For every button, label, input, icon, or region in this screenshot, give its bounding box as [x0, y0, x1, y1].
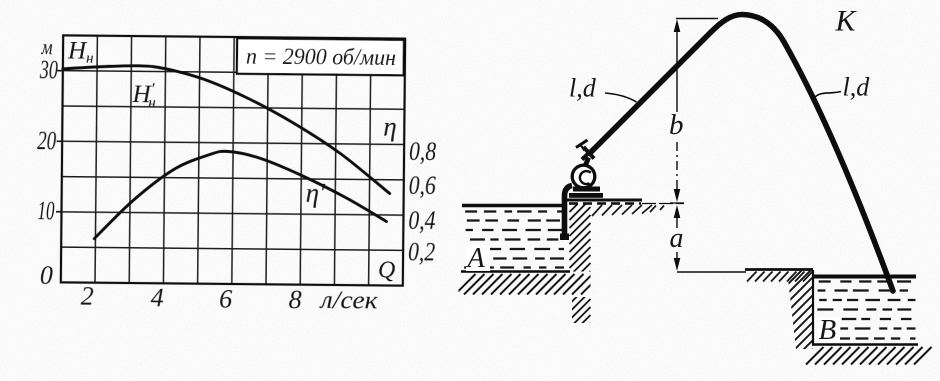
- arrow down at ground end of b: [674, 189, 681, 202]
- chart frame: [61, 35, 405, 285]
- hatch under reservoir B: [806, 347, 932, 365]
- arrow up at K level: [674, 19, 681, 32]
- reservoir A water surface: [462, 204, 566, 208]
- bank column right of A, lower: [570, 283, 591, 344]
- upper ground thin line to dimension: [642, 203, 684, 205]
- bank column right of A, upper: [570, 191, 591, 292]
- svg-text:0,2: 0,2: [408, 237, 435, 266]
- label B: [817, 314, 840, 346]
- lower ground surface: [745, 268, 813, 271]
- reservoir B water body: [817, 282, 915, 339]
- curve eta (efficiency): [94, 150, 387, 241]
- svg-text:0,6: 0,6: [409, 171, 436, 200]
- tick at ground level: [670, 202, 684, 204]
- discharge pipe over the hill: [592, 15, 894, 292]
- lower level reference line: [677, 271, 746, 273]
- svg-text:В: В: [819, 314, 837, 346]
- leader right: [814, 92, 842, 100]
- pump neck to valve: [585, 158, 589, 167]
- svg-text:η′: η′: [306, 178, 327, 208]
- svg-text:n = 2900 об/мин: n = 2900 об/мин: [246, 44, 396, 70]
- svg-text:20: 20: [37, 126, 56, 155]
- svg-text:2: 2: [81, 282, 94, 311]
- svg-text:l,d: l,d: [843, 73, 871, 102]
- svg-text:Q: Q: [378, 257, 396, 283]
- lower ground hatch ticks: [747, 272, 813, 282]
- svg-text:10: 10: [37, 196, 54, 225]
- svg-text:0,4: 0,4: [408, 206, 435, 235]
- svg-text:4: 4: [151, 283, 164, 312]
- reservoir B water surface: [814, 275, 916, 279]
- arrow up start of a: [674, 205, 681, 218]
- svg-text:η: η: [383, 111, 397, 141]
- svg-text:л/сек: л/сек: [318, 287, 378, 315]
- dimension top tick at K level: [676, 18, 718, 20]
- B left wall line: [812, 270, 814, 345]
- reservoir B bottom: [812, 343, 918, 346]
- svg-text:8: 8: [289, 285, 302, 314]
- svg-text:Н′н: Н′н: [131, 79, 156, 111]
- svg-text:b: b: [669, 109, 684, 141]
- upper ground dashes below surface: [569, 202, 641, 205]
- dimension vertical line b: [676, 28, 678, 112]
- svg-text:0: 0: [40, 261, 53, 290]
- suction pipe: [565, 186, 573, 240]
- reservoir A bottom: [461, 270, 570, 272]
- label A: [466, 243, 491, 274]
- svg-text:К: К: [835, 5, 858, 38]
- svg-text:l,d: l,d: [569, 74, 597, 103]
- svg-text:30: 30: [39, 55, 58, 84]
- grid: [61, 35, 405, 285]
- pump volute spiral: [580, 171, 591, 184]
- suction pipe foot: [560, 234, 569, 241]
- valve body X: [582, 147, 595, 160]
- svg-text:6: 6: [219, 284, 232, 313]
- hatch strip under upper ground: [592, 205, 664, 216]
- bank wedge left of B: [784, 259, 813, 381]
- svg-text:0,8: 0,8: [409, 137, 436, 166]
- upper ground surface thick: [565, 199, 642, 202]
- pump volute: [572, 165, 595, 188]
- annotation box n=2900: [237, 38, 404, 75]
- arrow down at lower level end of a: [674, 258, 681, 271]
- left axis ticks: [56, 71, 63, 212]
- svg-text:а: а: [670, 223, 684, 254]
- hatch under reservoir A: [455, 274, 602, 295]
- pump base: [573, 187, 600, 192]
- valve stem and handle: [581, 146, 585, 151]
- curve H_n (pump head): [62, 65, 391, 194]
- svg-text:А: А: [466, 243, 486, 274]
- leader left: [605, 93, 637, 102]
- reservoir A water body: [464, 212, 564, 268]
